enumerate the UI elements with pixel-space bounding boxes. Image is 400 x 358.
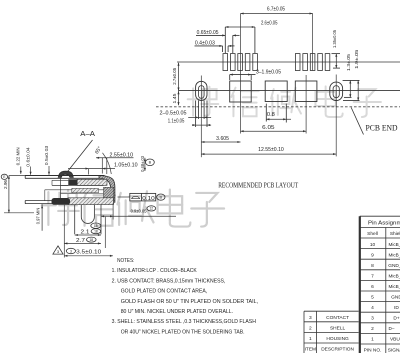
svg-text:3: 3: [70, 249, 72, 253]
inspection triangle: [53, 246, 63, 254]
watermark row 1 (light gray CJK-like glyphs): [188, 86, 381, 117]
PCB layout: dashed PCB edge line: [156, 106, 400, 108]
centerline S3: [305, 75, 307, 134]
pin assignment table: [360, 216, 400, 353]
svg-text:1. INSULATOR:LCP . COLOR–BLACK: 1. INSULATOR:LCP . COLOR–BLACK: [112, 268, 197, 274]
PCB layout: solid line through pads row: [179, 90, 400, 92]
centerline right pad group: [312, 14, 314, 71]
svg-text:2. USB CONTACT: BRASS,0.15mm T: 2. USB CONTACT: BRASS,0.15mm THICKNESS,: [112, 278, 226, 284]
svg-text:2: 2: [371, 326, 374, 332]
svg-text:1.1±0.05: 1.1±0.05: [168, 119, 185, 125]
svg-text:12: 12: [149, 207, 153, 211]
bottom-left shell lines: [25, 200, 53, 202]
svg-text:6: 6: [371, 284, 374, 290]
svg-text:80 U” MIN. NICKEL UNDER PLATED: 80 U” MIN. NICKEL UNDER PLATED OVERALL.: [121, 309, 234, 315]
svg-text:18: 18: [94, 230, 98, 234]
centerline left oval: [200, 76, 202, 158]
svg-text:0.6±0.04: 0.6±0.04: [25, 147, 30, 167]
svg-text:1.9±.05: 1.9±.05: [354, 49, 360, 68]
svg-text:3.605: 3.605: [216, 136, 229, 142]
svg-text:3: 3: [371, 316, 374, 322]
svg-text:HOUSING: HOUSING: [326, 336, 349, 342]
svg-text:2.6±0.05: 2.6±0.05: [261, 21, 278, 27]
svg-text:CONTACT: CONTACT: [326, 315, 349, 321]
svg-text:18: 18: [89, 238, 93, 242]
svg-text:D+: D+: [393, 316, 399, 322]
svg-text:5: 5: [371, 295, 374, 301]
body mid lines: [45, 189, 104, 191]
dim 3-1.9±0.05 (pad S1 width): [230, 74, 256, 76]
svg-text:1.45: 1.45: [172, 93, 178, 103]
svg-text:RECOMMENDED PCB LAYOUT: RECOMMENDED PCB LAYOUT: [218, 183, 299, 190]
watermark row 2: [42, 190, 224, 227]
datum balloon B mid: [157, 194, 165, 200]
svg-text:SHELL: SHELL: [330, 325, 346, 331]
solder tab pad S2: [265, 81, 287, 102]
svg-text:MicB_SHLD4: MicB_SHLD4: [389, 284, 400, 289]
svg-text:0.10: 0.10: [142, 196, 155, 202]
svg-text:PIN NO.: PIN NO.: [364, 347, 382, 353]
through-hole oval pad left (outer): [196, 81, 207, 100]
svg-text:GND: GND: [391, 295, 400, 301]
svg-text:7: 7: [371, 273, 374, 279]
svg-text:3: 3: [309, 315, 312, 321]
solder tab pad S1: [230, 81, 252, 102]
svg-text:0.22 MIN: 0.22 MIN: [16, 147, 21, 165]
svg-text:3. SHELL: STAINLESS STEEL ,0.3: 3. SHELL: STAINLESS STEEL ,0.3 THICKNESS…: [112, 319, 256, 325]
svg-text:1.3±.05: 1.3±.05: [346, 54, 352, 71]
solder tab pad S3: [295, 81, 317, 102]
balloon 18 upper: [91, 223, 101, 228]
svg-text:MicB_SHLD3: MicB_SHLD3: [389, 273, 400, 278]
body inner lines: [61, 193, 104, 195]
connector shell: dome curl: [58, 171, 73, 177]
svg-text:12.55±0.10: 12.55±0.10: [258, 147, 284, 153]
body inner hatched block right (dark): [104, 187, 114, 204]
svg-text:1.05±0.10: 1.05±0.10: [114, 162, 138, 168]
svg-text:ITEM: ITEM: [305, 347, 316, 353]
svg-text:2.96: 2.96: [3, 180, 8, 189]
svg-text:0.5±0.03: 0.5±0.03: [44, 145, 49, 165]
svg-text:2: 2: [309, 325, 312, 331]
svg-text:18: 18: [94, 224, 98, 228]
svg-text:0.97 MIN: 0.97 MIN: [35, 208, 40, 225]
svg-text:DESCRIPTION: DESCRIPTION: [321, 347, 354, 353]
SMT pad group left (5 pads): [223, 54, 228, 71]
svg-text:0.8: 0.8: [267, 112, 275, 118]
svg-text:3–1.9±0.05: 3–1.9±0.05: [256, 70, 281, 76]
shell front lip verticals: [24, 176, 26, 179]
connector shell: right cap (dark): [99, 176, 115, 203]
svg-text:SIGNAL: SIGNAL: [388, 347, 400, 353]
svg-text:D–: D–: [389, 326, 395, 331]
solder tab (dark): [52, 198, 71, 205]
lower contact hatched strip: [72, 188, 99, 192]
svg-text:10: 10: [370, 242, 376, 248]
datum balloon B upper: [146, 159, 155, 166]
svg-text:B: B: [160, 195, 163, 199]
item/description table: [304, 311, 359, 353]
through-hole oval pad right (inner hole): [333, 86, 339, 98]
svg-text:2.7: 2.7: [76, 238, 85, 244]
svg-text:MicB_SHLD1: MicB_SHLD1: [389, 242, 400, 247]
SMT pad group right (5 pads): [295, 54, 300, 71]
dim 2.6±0.05: [225, 26, 255, 28]
centerline right oval: [335, 75, 337, 157]
PCB layout: solid line upper: [177, 61, 400, 63]
svg-text:9: 9: [371, 252, 374, 258]
dim 6.7±0.05: [241, 13, 313, 15]
centerline S1/left pad group: [240, 14, 242, 134]
connector shell: top lines: [25, 175, 105, 177]
svg-text:6.05: 6.05: [262, 125, 275, 131]
bottom flange hatched band: [68, 198, 114, 205]
through-hole oval pad left (inner hole): [199, 86, 205, 99]
through-hole oval pad right (outer): [330, 82, 343, 100]
svg-text:OR 40U” NICKEL PLATED ON THE S: OR 40U” NICKEL PLATED ON THE SOLDERING T…: [121, 329, 245, 335]
PCB END label + leader: [351, 108, 363, 135]
section leader line 65deg: [67, 140, 93, 173]
svg-text:A–A: A–A: [80, 129, 95, 138]
svg-text:VBUS: VBUS: [390, 337, 400, 343]
svg-text:6.7±0.05: 6.7±0.05: [267, 7, 285, 13]
lower legs outline: [74, 205, 76, 235]
svg-text:ID: ID: [394, 305, 399, 311]
svg-text:2.7±0.05: 2.7±0.05: [172, 68, 178, 85]
svg-text:1: 1: [309, 336, 312, 342]
svg-text:4: 4: [371, 305, 374, 311]
insulator top hatched band: [77, 179, 107, 185]
svg-text:GOLD FLASH OR 50 U” TIN PLATED: GOLD FLASH OR 50 U” TIN PLATED ON SOLDER…: [121, 299, 259, 305]
svg-text:1: 1: [371, 337, 374, 343]
svg-text:3.5±0.10: 3.5±0.10: [76, 250, 101, 256]
extension lines below connector: [63, 205, 65, 258]
svg-text:MicB_SHLD2: MicB_SHLD2: [389, 252, 400, 257]
svg-text:PCB END: PCB END: [366, 124, 398, 133]
svg-text:2–0.5±0.05: 2–0.5±0.05: [160, 111, 187, 117]
svg-text:Shell: Shell: [367, 231, 378, 237]
svg-text:0.9±0.05: 0.9±0.05: [131, 208, 147, 214]
U slot in legs: [81, 205, 94, 224]
svg-text:GND_S: GND_S: [388, 263, 400, 269]
svg-text:B: B: [149, 161, 152, 165]
svg-text:NOTES:: NOTES:: [117, 258, 135, 264]
svg-text:GOLD PLATED ON CONTACT AREA,: GOLD PLATED ON CONTACT AREA,: [121, 289, 208, 295]
contact dark block: [68, 179, 77, 185]
svg-text:1.35±0.05: 1.35±0.05: [332, 30, 338, 48]
feature control frame 0.10: [130, 193, 156, 201]
svg-text:Shield: Shield: [390, 231, 400, 237]
svg-text:2.1: 2.1: [81, 229, 90, 235]
svg-text:0.48±.03: 0.48±.03: [140, 156, 145, 172]
svg-text:Pin Assignment: Pin Assignment: [368, 221, 400, 227]
svg-text:8: 8: [371, 263, 374, 269]
dim 3.5±0.10 + balloon 3: [66, 248, 75, 253]
